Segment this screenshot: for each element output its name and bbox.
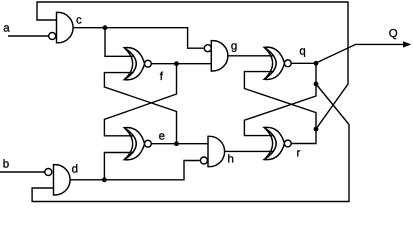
svg-text:b: b xyxy=(3,158,9,170)
svg-text:h: h xyxy=(228,154,234,166)
svg-text:d: d xyxy=(72,164,78,176)
svg-text:e: e xyxy=(159,130,165,142)
svg-text:r: r xyxy=(297,148,301,160)
svg-text:q: q xyxy=(299,46,305,58)
svg-text:Q: Q xyxy=(389,28,398,40)
svg-text:g: g xyxy=(231,40,237,52)
svg-text:a: a xyxy=(3,22,10,34)
svg-text:c: c xyxy=(76,15,82,27)
